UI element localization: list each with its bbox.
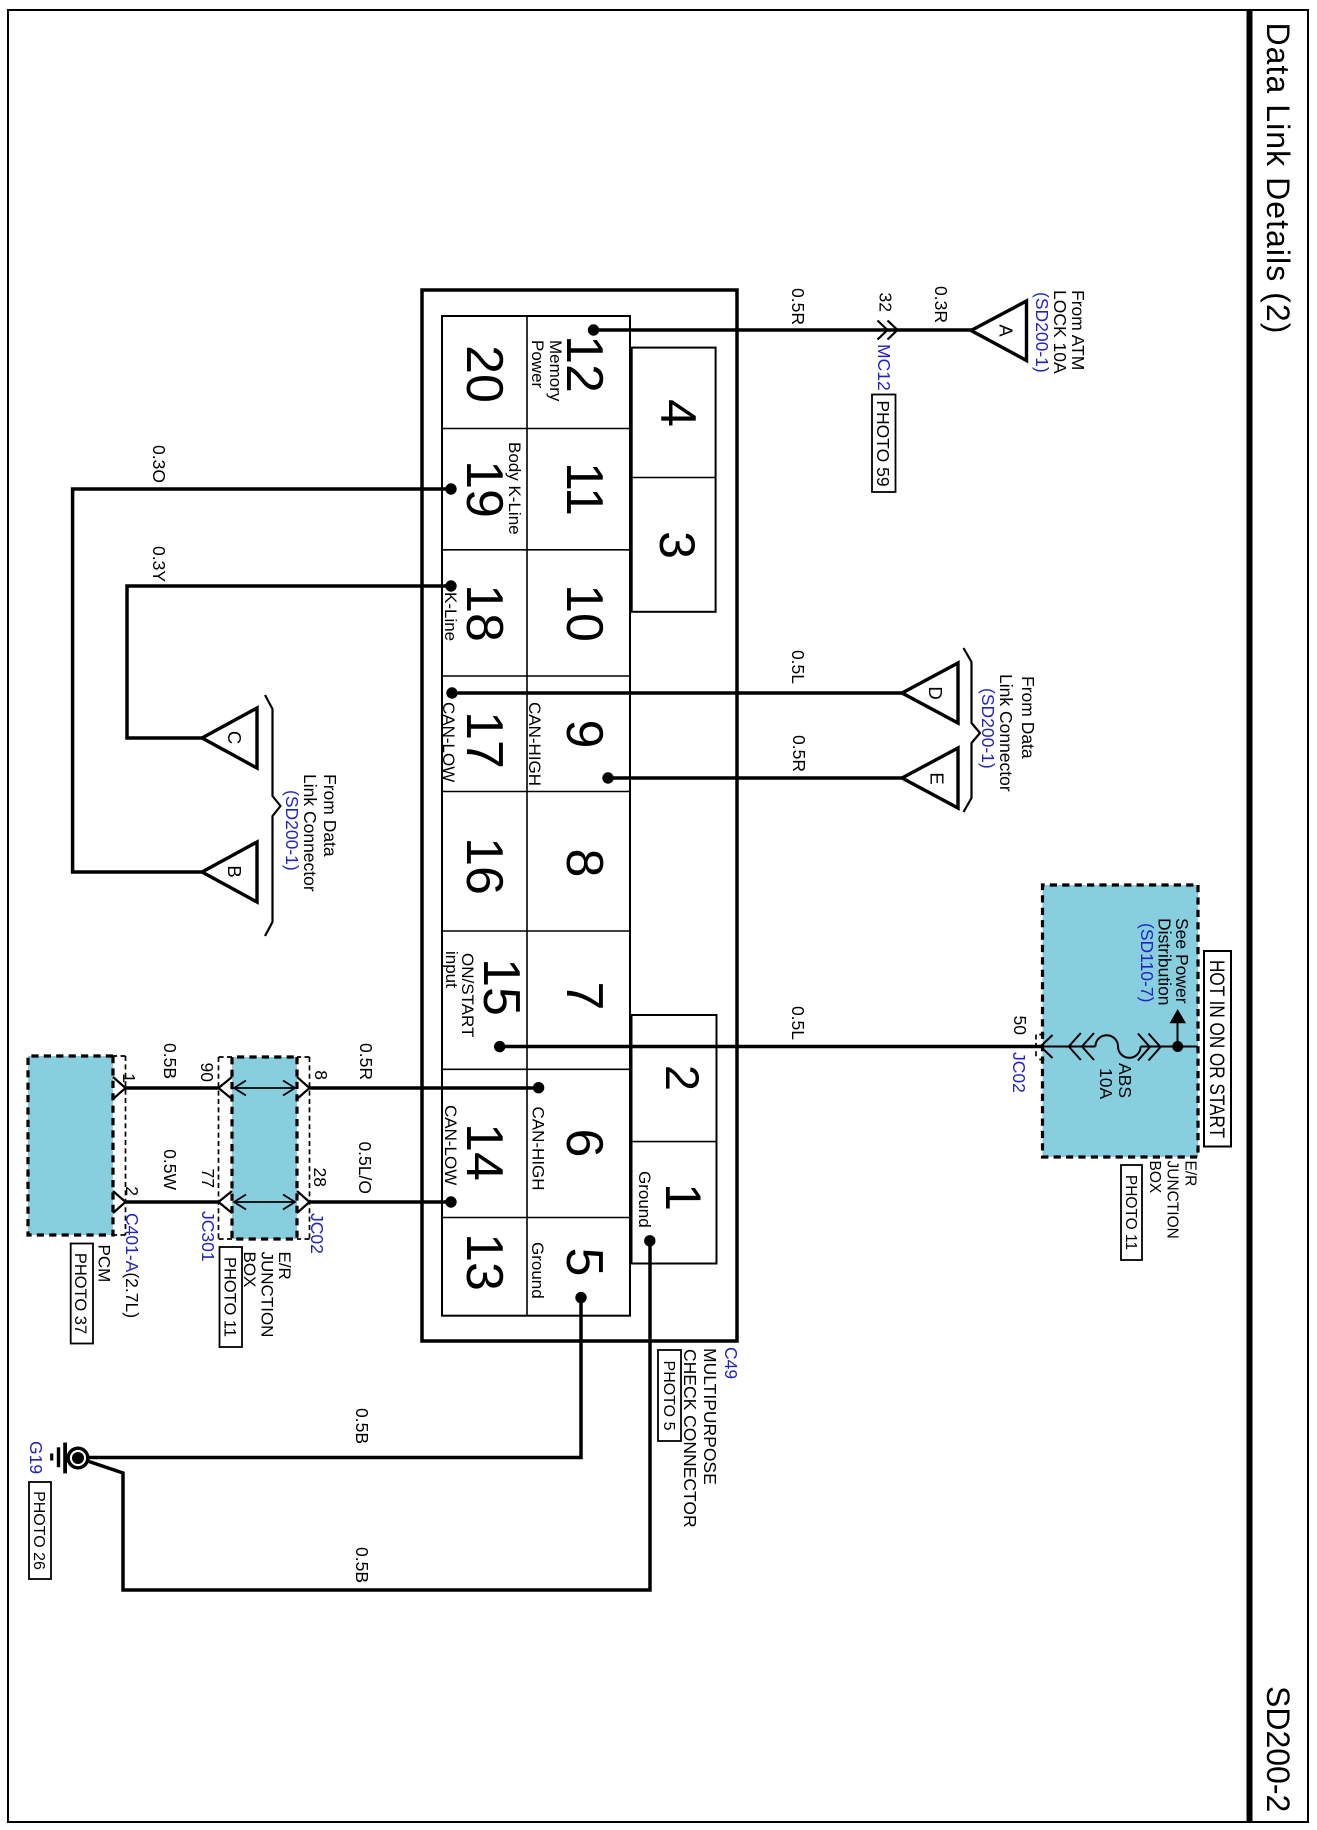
- svg-text:JC02: JC02: [1009, 1052, 1029, 1093]
- svg-text:28: 28: [310, 1168, 330, 1187]
- svg-text:input: input: [442, 951, 461, 988]
- svg-text:0.5R: 0.5R: [789, 735, 809, 772]
- svg-text:4: 4: [650, 399, 706, 427]
- svg-text:Power: Power: [528, 340, 547, 389]
- svg-text:PHOTO 11: PHOTO 11: [221, 1257, 239, 1337]
- svg-text:CAN-HIGH: CAN-HIGH: [529, 1107, 548, 1191]
- svg-text:10A: 10A: [1096, 1068, 1116, 1099]
- svg-text:CHECK CONNECTOR: CHECK CONNECTOR: [680, 1349, 700, 1528]
- svg-text:(SD200-1): (SD200-1): [282, 790, 302, 871]
- svg-text:C: C: [224, 731, 245, 744]
- svg-text:14: 14: [455, 1123, 513, 1181]
- svg-text:(SD200-1): (SD200-1): [978, 688, 998, 769]
- svg-text:3: 3: [649, 531, 705, 559]
- svg-text:PHOTO 11: PHOTO 11: [1122, 1175, 1139, 1250]
- svg-text:E: E: [927, 772, 948, 784]
- svg-text:JUNCTION: JUNCTION: [1164, 1161, 1181, 1239]
- svg-text:77: 77: [198, 1169, 218, 1188]
- svg-text:JC02: JC02: [307, 1213, 327, 1254]
- svg-text:8: 8: [555, 849, 613, 878]
- svg-text:6: 6: [555, 1129, 613, 1158]
- svg-text:See Power: See Power: [1172, 918, 1192, 1004]
- svg-text:1: 1: [119, 1073, 139, 1083]
- svg-text:2: 2: [122, 1186, 142, 1196]
- svg-text:5: 5: [555, 1248, 613, 1277]
- svg-text:CAN-LOW: CAN-LOW: [441, 1105, 460, 1185]
- svg-text:BOX: BOX: [1146, 1161, 1163, 1194]
- svg-text:(SD200-1): (SD200-1): [1032, 292, 1052, 373]
- svg-text:C401-A(2.7L): C401-A(2.7L): [122, 1213, 142, 1318]
- svg-text:Distribution: Distribution: [1155, 918, 1175, 1006]
- svg-text:From ATM: From ATM: [1068, 290, 1088, 370]
- svg-text:9: 9: [555, 720, 613, 749]
- svg-text:PHOTO 37: PHOTO 37: [71, 1253, 89, 1334]
- svg-text:Link Connector: Link Connector: [300, 774, 320, 892]
- svg-text:0.5R: 0.5R: [356, 1043, 376, 1080]
- svg-text:0.5B: 0.5B: [160, 1043, 180, 1079]
- svg-text:0.5B: 0.5B: [352, 1547, 372, 1583]
- svg-text:E/R: E/R: [275, 1252, 294, 1280]
- svg-text:Link Connector: Link Connector: [996, 674, 1016, 792]
- svg-text:(SD110-7): (SD110-7): [1137, 923, 1157, 1002]
- svg-text:MC12: MC12: [874, 344, 894, 391]
- svg-text:Ground: Ground: [528, 1242, 547, 1299]
- svg-text:E/R: E/R: [1182, 1161, 1199, 1187]
- svg-text:CAN-HIGH: CAN-HIGH: [525, 702, 544, 786]
- svg-text:SD200-2: SD200-2: [1260, 1686, 1296, 1812]
- svg-text:0.3O: 0.3O: [149, 445, 169, 483]
- svg-text:BOX: BOX: [240, 1252, 259, 1288]
- svg-text:B: B: [224, 865, 245, 877]
- svg-text:A: A: [996, 324, 1017, 337]
- svg-text:20: 20: [455, 345, 513, 403]
- svg-text:HOT IN ON OR START: HOT IN ON OR START: [1205, 960, 1228, 1138]
- svg-text:MULTIPURPOSE: MULTIPURPOSE: [700, 1348, 720, 1485]
- svg-text:7: 7: [555, 982, 613, 1011]
- svg-text:90: 90: [197, 1063, 217, 1083]
- svg-text:50: 50: [1010, 1016, 1030, 1036]
- svg-text:Body K-Line: Body K-Line: [505, 442, 524, 535]
- svg-text:15: 15: [472, 958, 530, 1016]
- svg-text:0.5L: 0.5L: [788, 1006, 808, 1040]
- svg-text:JUNCTION: JUNCTION: [258, 1252, 277, 1338]
- svg-text:0.3R: 0.3R: [931, 286, 951, 323]
- svg-text:0.5W: 0.5W: [160, 1149, 180, 1190]
- svg-text:16: 16: [455, 837, 513, 895]
- svg-text:8: 8: [311, 1070, 331, 1080]
- svg-text:11: 11: [555, 462, 613, 516]
- svg-text:0.5L: 0.5L: [788, 650, 808, 684]
- svg-text:10: 10: [555, 584, 613, 642]
- svg-text:Memory: Memory: [546, 340, 565, 402]
- svg-text:Ground: Ground: [635, 1171, 654, 1228]
- svg-text:13: 13: [455, 1233, 513, 1291]
- svg-text:1: 1: [655, 1183, 711, 1211]
- svg-text:JC301: JC301: [198, 1211, 218, 1262]
- svg-text:From Data: From Data: [320, 774, 340, 857]
- svg-text:D: D: [925, 686, 946, 699]
- svg-text:Data Link Details (2): Data Link Details (2): [1260, 23, 1296, 335]
- svg-text:K-Line: K-Line: [441, 592, 460, 641]
- svg-text:PCM: PCM: [95, 1245, 114, 1283]
- svg-text:G19: G19: [26, 1441, 46, 1474]
- svg-text:PHOTO 59: PHOTO 59: [873, 400, 893, 486]
- svg-text:2: 2: [656, 1065, 709, 1091]
- svg-text:C49: C49: [721, 1347, 741, 1379]
- svg-text:LOCK 10A: LOCK 10A: [1050, 290, 1070, 374]
- svg-text:PHOTO 5: PHOTO 5: [660, 1361, 677, 1431]
- svg-text:32: 32: [876, 293, 896, 312]
- svg-text:PHOTO 26: PHOTO 26: [30, 1491, 47, 1570]
- svg-text:0.5R: 0.5R: [788, 288, 808, 325]
- svg-text:18: 18: [455, 584, 513, 642]
- svg-text:0.5L/O: 0.5L/O: [355, 1141, 375, 1194]
- svg-text:0.5B: 0.5B: [352, 1408, 372, 1444]
- svg-text:17: 17: [455, 711, 513, 769]
- svg-text:From Data: From Data: [1018, 676, 1038, 759]
- svg-text:ABS: ABS: [1115, 1063, 1135, 1098]
- svg-text:0.3Y: 0.3Y: [149, 546, 169, 582]
- svg-text:CAN-LOW: CAN-LOW: [439, 702, 458, 782]
